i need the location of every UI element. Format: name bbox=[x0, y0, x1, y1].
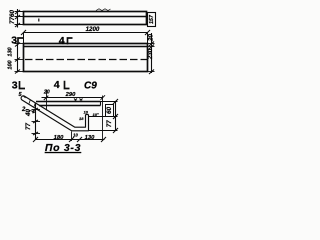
svg-text:180: 180 bbox=[54, 135, 64, 141]
svg-text:4: 4 bbox=[54, 79, 60, 91]
svg-text:77: 77 bbox=[106, 120, 113, 127]
svg-text:157: 157 bbox=[149, 14, 155, 24]
svg-text:40: 40 bbox=[25, 109, 32, 117]
svg-text:60: 60 bbox=[106, 106, 113, 113]
svg-text:130: 130 bbox=[7, 46, 13, 56]
svg-text:60: 60 bbox=[9, 10, 16, 17]
svg-text:10: 10 bbox=[73, 133, 78, 138]
svg-text:130: 130 bbox=[85, 135, 95, 141]
svg-text:20: 20 bbox=[43, 89, 50, 95]
svg-text:230: 230 bbox=[147, 48, 154, 60]
svg-text:20: 20 bbox=[147, 34, 154, 42]
svg-text:С9: С9 bbox=[84, 81, 97, 92]
svg-text:4: 4 bbox=[59, 35, 65, 47]
svg-text:18: 18 bbox=[79, 116, 84, 121]
svg-text:10: 10 bbox=[84, 110, 89, 115]
svg-text:100: 100 bbox=[7, 59, 13, 69]
svg-text:3: 3 bbox=[11, 35, 17, 47]
svg-text:290: 290 bbox=[65, 92, 76, 98]
svg-text:3: 3 bbox=[12, 79, 18, 91]
svg-text:10°: 10° bbox=[93, 112, 99, 117]
svg-text:77: 77 bbox=[9, 17, 16, 24]
svg-text:1200: 1200 bbox=[86, 26, 100, 33]
svg-text:77: 77 bbox=[25, 123, 32, 130]
svg-text:По 3-3: По 3-3 bbox=[45, 142, 81, 154]
